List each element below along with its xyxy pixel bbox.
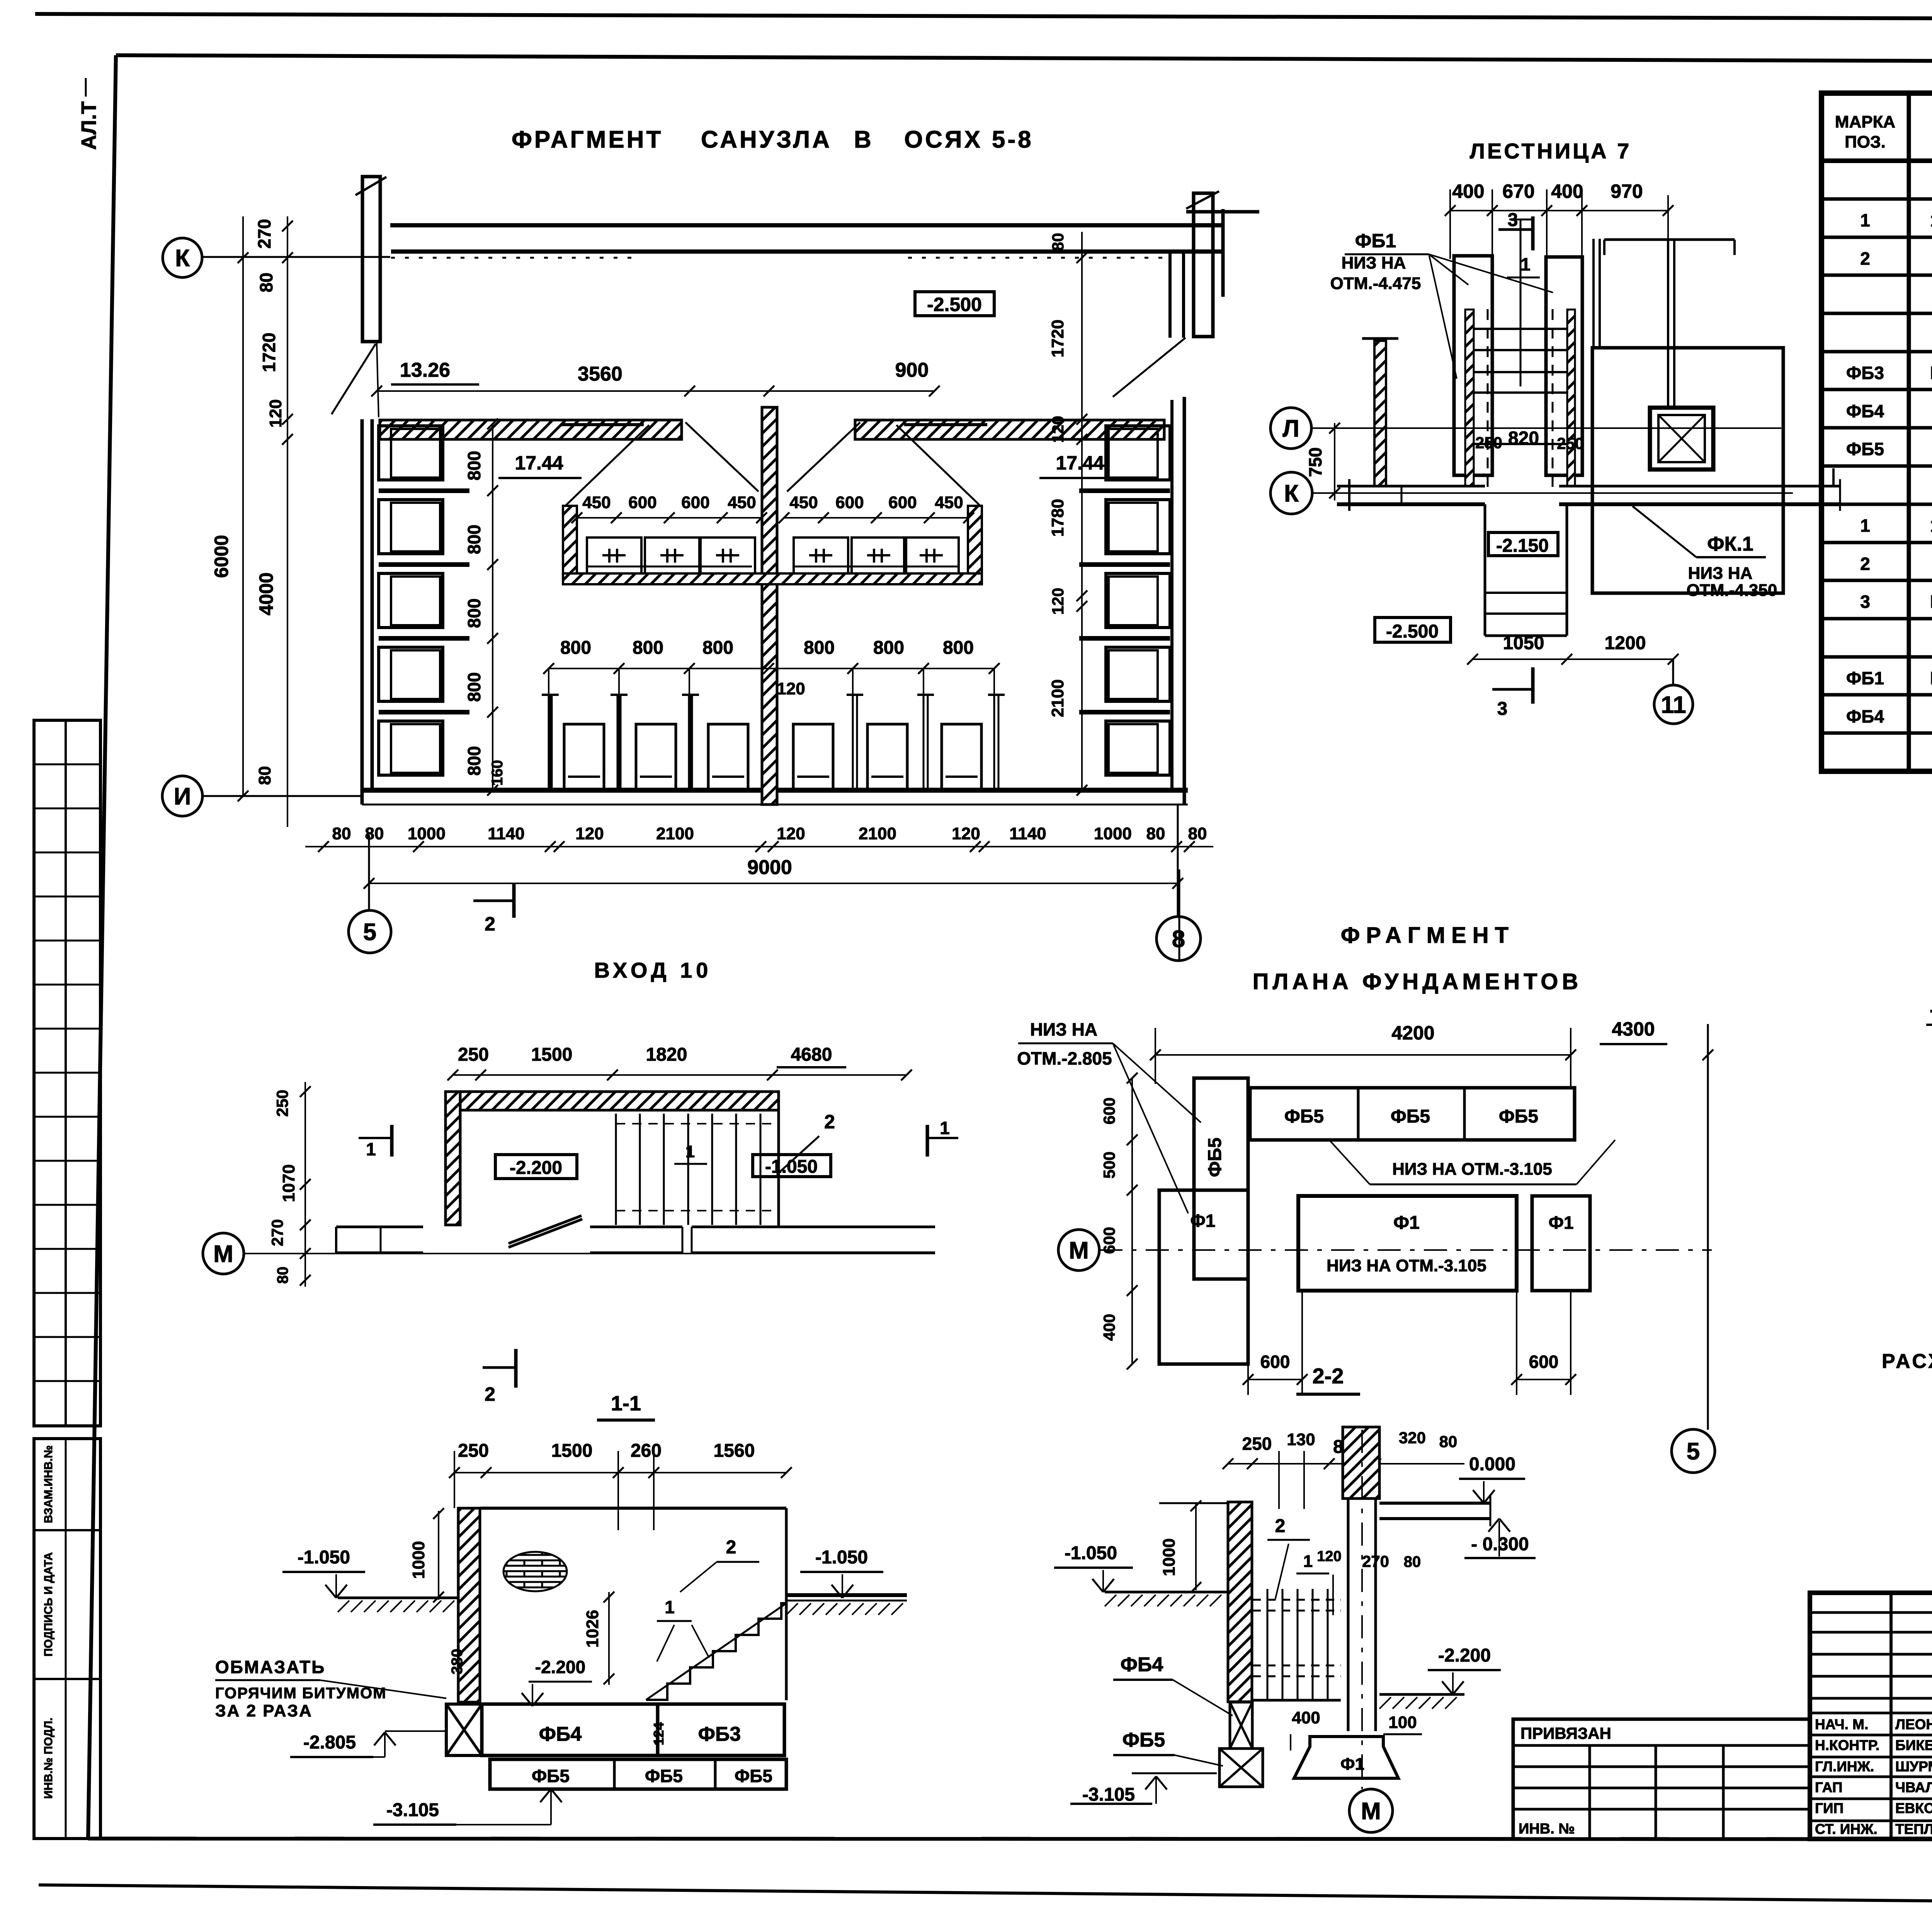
- sink room bottom wall hatched: [563, 573, 982, 584]
- svg-text:250: 250: [273, 1090, 291, 1117]
- svg-text:4680: 4680: [791, 1044, 832, 1065]
- svg-text:130: 130: [1287, 1430, 1315, 1449]
- svg-text:НИЗ НА: НИЗ НА: [1342, 253, 1406, 272]
- wall pillar top-left: [362, 177, 380, 342]
- funnel diagonals right doorway: [787, 422, 860, 492]
- svg-text:320: 320: [1399, 1429, 1426, 1447]
- svg-text:250: 250: [1475, 434, 1502, 452]
- stall partitions right thin double: [852, 695, 854, 790]
- dim line 3560 900: [377, 390, 934, 392]
- svg-text:600: 600: [835, 493, 864, 512]
- svg-text:750: 750: [1305, 447, 1325, 477]
- svg-text:1820: 1820: [646, 1044, 687, 1065]
- svg-text:ГОСТ 13579-78: ГОСТ 13579-78: [1930, 668, 1932, 688]
- door lintel dashed over corridor opening: [391, 257, 641, 259]
- svg-text:ГОРЯЧИМ БИТУМОМ: ГОРЯЧИМ БИТУМОМ: [215, 1685, 387, 1702]
- svg-text:120: 120: [575, 824, 604, 843]
- axis L line: [1311, 427, 1781, 429]
- svg-text:ФБ5: ФБ5: [1846, 439, 1884, 459]
- svg-text:ФРАГМЕНТ: ФРАГМЕНТ: [1341, 923, 1515, 948]
- vhod stairs dashed rails: [616, 1123, 779, 1124]
- room right wall: [1170, 400, 1173, 790]
- svg-text:450: 450: [935, 493, 963, 512]
- svg-text:ВЗАМ.ИНВ.№: ВЗАМ.ИНВ.№: [42, 1445, 55, 1523]
- stair stringer hatched left: [1465, 310, 1474, 486]
- svg-text:ФК.1: ФК.1: [1707, 533, 1753, 555]
- axis mark М: [203, 1233, 244, 1274]
- svg-text:ФБ5: ФБ5: [735, 1766, 772, 1786]
- drawing frame top line: [116, 55, 1932, 63]
- svg-text:400: 400: [1292, 1708, 1320, 1727]
- svg-text:120: 120: [777, 824, 805, 843]
- axis mark 5: [349, 910, 391, 953]
- ground line right 1-1: [786, 1593, 907, 1597]
- svg-text:600: 600: [1100, 1097, 1118, 1124]
- right wall stub above: [1168, 252, 1172, 338]
- svg-text:800: 800: [464, 451, 484, 481]
- svg-text:АЛ.Т: АЛ.Т: [77, 101, 100, 150]
- lestnica dim extension lines: [1449, 189, 1451, 259]
- corridor wall top lines: [390, 223, 1223, 228]
- svg-text:800: 800: [464, 672, 484, 702]
- svg-text:ПОДПИСЬ И ДАТА: ПОДПИСЬ И ДАТА: [42, 1552, 55, 1657]
- svg-text:800: 800: [702, 638, 733, 658]
- svg-text:5: 5: [363, 919, 376, 946]
- svg-text:-2.150: -2.150: [1496, 536, 1549, 556]
- wall pillar top-right: [1194, 193, 1213, 337]
- svg-text:3: 3: [1860, 592, 1870, 612]
- svg-text:80: 80: [1049, 233, 1067, 251]
- svg-text:1: 1: [1860, 210, 1870, 230]
- svg-text:80: 80: [365, 824, 384, 843]
- dim 4200 and 4300: [1155, 1054, 1571, 1056]
- svg-text:Ф1: Ф1: [1393, 1213, 1420, 1233]
- 2-2 right floor slab: [1379, 1502, 1490, 1505]
- svg-text:ОБМАЗАТЬ: ОБМАЗАТЬ: [215, 1657, 325, 1677]
- svg-text:ЧВАЛУН: ЧВАЛУН: [1895, 1779, 1932, 1795]
- svg-text:-1.050: -1.050: [1065, 1543, 1117, 1563]
- svg-text:ЛЕСТНИЦА 7: ЛЕСТНИЦА 7: [1470, 139, 1632, 163]
- svg-text:1140: 1140: [488, 824, 524, 843]
- svg-text:600: 600: [1260, 1352, 1290, 1372]
- svg-text:ФБ4: ФБ4: [1846, 401, 1884, 421]
- svg-text:3560: 3560: [578, 363, 622, 385]
- svg-text:ФБ5: ФБ5: [1391, 1106, 1430, 1127]
- svg-text:800: 800: [633, 638, 663, 658]
- svg-text:1: 1: [685, 1142, 695, 1161]
- svg-text:БИКБАЕВА: БИКБАЕВА: [1895, 1737, 1932, 1753]
- stair dashed rails: [1487, 309, 1489, 487]
- sinks left group: [587, 538, 641, 573]
- svg-text:250: 250: [458, 1044, 489, 1065]
- drawing frame left line: [88, 55, 116, 1839]
- vhod left hatched wall stub: [446, 1092, 460, 1225]
- svg-text:1: 1: [665, 1597, 675, 1617]
- vertical FB5 block: [1194, 1078, 1248, 1279]
- axis 5 line down to circle: [1707, 1024, 1709, 1430]
- svg-text:ФБ4: ФБ4: [1121, 1653, 1163, 1676]
- svg-text:-2.200: -2.200: [1438, 1645, 1491, 1666]
- svg-text:80: 80: [256, 272, 276, 292]
- svg-text:9000: 9000: [747, 856, 792, 879]
- right F1 block: [1532, 1196, 1590, 1291]
- left retaining wall hatched: [1374, 341, 1386, 486]
- svg-text:4300: 4300: [1612, 1018, 1655, 1040]
- axis mark М: [1349, 1789, 1393, 1832]
- axis mark И: [162, 776, 202, 816]
- svg-text:-3.105: -3.105: [1082, 1784, 1135, 1805]
- svg-text:80: 80: [1439, 1432, 1458, 1451]
- svg-text:1070: 1070: [279, 1164, 298, 1202]
- right funnel diagonal to corridor: [1113, 338, 1185, 397]
- axis mark Л: [1270, 408, 1311, 449]
- left stamp column lower table: [34, 1439, 100, 1839]
- svg-text:2100: 2100: [859, 824, 896, 843]
- svg-text:ОТМ.-2.805: ОТМ.-2.805: [1017, 1048, 1112, 1068]
- sinks right group: [794, 538, 848, 573]
- svg-text:ФБ4: ФБ4: [539, 1723, 582, 1745]
- axis 8 extension and mark: [1177, 805, 1179, 917]
- svg-text:ФБ5: ФБ5: [532, 1766, 570, 1786]
- svg-text:ГИП: ГИП: [1815, 1800, 1844, 1816]
- axis mark К: [163, 238, 202, 277]
- axis K line (lestnica): [1312, 492, 1793, 494]
- vhod left rotated dims: [304, 1082, 306, 1287]
- top wall hatched strip A: [380, 420, 682, 439]
- stair pit below slab: [1484, 504, 1486, 636]
- svg-text:400: 400: [1551, 180, 1583, 202]
- svg-text:-1.050: -1.050: [765, 1157, 818, 1177]
- svg-text:НИЗ НА: НИЗ НА: [1688, 564, 1753, 583]
- svg-text:ФБ4: ФБ4: [1846, 706, 1884, 726]
- svg-text:ОТМ.-4.475: ОТМ.-4.475: [1330, 274, 1421, 293]
- axis mark 5: [1672, 1429, 1715, 1473]
- svg-text:1: 1: [1860, 515, 1870, 536]
- svg-text:НИЗ НА: НИЗ НА: [1030, 1019, 1097, 1039]
- 1-1 dim row 250 1500 260 1560: [454, 1472, 786, 1473]
- 2-2 right wall upper hatched: [1343, 1427, 1379, 1499]
- bottom 600 dims: [1248, 1379, 1302, 1380]
- svg-text:5: 5: [1687, 1438, 1700, 1465]
- wall face line under 17.44 left: [561, 423, 644, 426]
- vhod top hatched wall: [446, 1092, 779, 1110]
- title block main frame: [1810, 1593, 1932, 1839]
- stair direction arrow line: [1520, 219, 1522, 386]
- svg-text:ГОСТ 13579-78: ГОСТ 13579-78: [1930, 363, 1932, 383]
- lestnica bottom dim 1050 1200: [1473, 658, 1673, 660]
- 2-2 right wall lower: [1347, 1499, 1350, 1731]
- level box -2.500: [915, 292, 994, 316]
- level box -2.200: [495, 1155, 577, 1179]
- svg-text:САНУЗЛА: САНУЗЛА: [701, 126, 832, 153]
- svg-text:ФБ1: ФБ1: [1355, 230, 1396, 252]
- svg-text:-3.000: -3.000: [1930, 999, 1932, 1021]
- svg-text:2: 2: [726, 1537, 736, 1558]
- svg-text:-2.200: -2.200: [510, 1158, 562, 1178]
- svg-text:80: 80: [1404, 1553, 1421, 1570]
- svg-text:ШУРМУХИНА: ШУРМУХИНА: [1895, 1759, 1932, 1774]
- svg-text:160: 160: [489, 760, 506, 786]
- vhod floor slabs right: [590, 1226, 682, 1228]
- svg-text:ФБ5: ФБ5: [645, 1766, 683, 1786]
- svg-text:450: 450: [582, 493, 611, 512]
- svg-text:1: 1: [1520, 254, 1531, 274]
- svg-text:ФБ5: ФБ5: [1122, 1729, 1165, 1751]
- svg-text:1: 1: [940, 1118, 950, 1138]
- axis M line 2-2: [1361, 1430, 1363, 1789]
- 2-2 left hatched wall: [1228, 1502, 1252, 1702]
- 1-1 foundation FB3: [658, 1704, 784, 1755]
- svg-text:11: 11: [1661, 692, 1686, 718]
- svg-text:1140: 1140: [1009, 824, 1046, 843]
- center F1 block: [1298, 1196, 1517, 1291]
- svg-text:600: 600: [628, 493, 656, 512]
- svg-text:В: В: [854, 126, 874, 153]
- svg-text:17.44: 17.44: [1056, 452, 1104, 474]
- svg-text:М: М: [1069, 1237, 1089, 1264]
- svg-text:1: 1: [1303, 1552, 1313, 1571]
- svg-text:1: 1: [366, 1139, 376, 1159]
- axis M line vhod: [243, 1253, 935, 1254]
- svg-text:2: 2: [1860, 554, 1870, 574]
- privyazan extension table: [1513, 1719, 1810, 1839]
- right interior dim line: [1081, 232, 1083, 790]
- svg-text:600: 600: [888, 493, 917, 512]
- 1-1 foundation X box: [446, 1704, 482, 1755]
- wall face line under 17.44 right: [904, 423, 987, 426]
- level box -2.150: [1488, 532, 1558, 556]
- svg-text:600: 600: [681, 493, 709, 512]
- floor slab strip right at axis K: [1559, 485, 1839, 488]
- section flag 3 top: [1498, 228, 1533, 231]
- svg-text:800: 800: [464, 525, 484, 555]
- fundament left rotated dims: [1131, 1078, 1133, 1364]
- svg-text:100: 100: [1388, 1713, 1417, 1732]
- svg-text:600: 600: [1100, 1227, 1118, 1254]
- top cap line over risers: [1604, 238, 1735, 241]
- svg-text:М: М: [213, 1241, 233, 1267]
- svg-text:1.055.1-1: 1.055.1-1: [1930, 515, 1932, 536]
- svg-text:НАЧ. М.: НАЧ. М.: [1815, 1716, 1868, 1732]
- svg-text:400: 400: [1100, 1314, 1118, 1341]
- right landing pit rectangle: [1592, 348, 1783, 593]
- svg-text:ЕВКО: ЕВКО: [1895, 1800, 1932, 1816]
- svg-text:120: 120: [266, 399, 285, 427]
- 1-1 foundation FB4: [482, 1704, 658, 1755]
- svg-text:1720: 1720: [1048, 320, 1067, 357]
- svg-text:ПЛАНА ФУНДАМЕНТОВ: ПЛАНА ФУНДАМЕНТОВ: [1253, 969, 1582, 994]
- svg-text:1560: 1560: [714, 1441, 755, 1461]
- svg-text:1720: 1720: [259, 333, 279, 372]
- svg-text:1000: 1000: [408, 824, 446, 843]
- svg-text:-2.200: -2.200: [535, 1657, 585, 1677]
- left interior dim line 800 x5: [492, 424, 493, 790]
- svg-text:Л: Л: [1282, 415, 1299, 442]
- section flag 2 top: [473, 900, 514, 902]
- svg-text:1500: 1500: [531, 1044, 573, 1065]
- axis mark 11: [1654, 685, 1693, 724]
- svg-text:4200: 4200: [1391, 1022, 1434, 1044]
- svg-text:1026: 1026: [583, 1610, 602, 1648]
- riser lines above pit: [1592, 239, 1595, 348]
- 1-1 stairs steps: [646, 1603, 786, 1700]
- svg-text:2-2: 2-2: [1313, 1364, 1344, 1388]
- stall dim line 800 x6: [549, 668, 994, 669]
- svg-text:ТЕПЛОВА: ТЕПЛОВА: [1895, 1821, 1932, 1837]
- 1-1 brick ellipse: [503, 1552, 567, 1591]
- vhod floor slabs left: [336, 1226, 423, 1228]
- svg-text:80: 80: [1146, 824, 1165, 843]
- level box -1.050: [753, 1155, 831, 1177]
- left outer dim lines: [242, 216, 244, 796]
- svg-text:СТ. ИНЖ.: СТ. ИНЖ.: [1815, 1821, 1878, 1837]
- left lower F1 block: [1159, 1190, 1248, 1364]
- svg-text:260: 260: [631, 1441, 662, 1461]
- svg-text:6000: 6000: [211, 535, 232, 578]
- svg-text:1500: 1500: [551, 1441, 593, 1461]
- svg-text:1000: 1000: [1094, 824, 1132, 843]
- svg-text:ЗА 2 РАЗА: ЗА 2 РАЗА: [215, 1701, 313, 1720]
- room left wall: [361, 419, 364, 805]
- svg-text:МАРКА: МАРКА: [1835, 112, 1895, 131]
- svg-text:2: 2: [1860, 248, 1870, 269]
- axis I line: [202, 795, 363, 797]
- svg-text:0.000: 0.000: [1469, 1454, 1515, 1475]
- svg-text:ГАП: ГАП: [1815, 1779, 1842, 1795]
- svg-text:250: 250: [1242, 1434, 1272, 1454]
- svg-text:250: 250: [458, 1441, 489, 1461]
- svg-text:К: К: [1284, 480, 1299, 507]
- toilets: [564, 724, 604, 790]
- corridor wall end cap: [1221, 209, 1225, 297]
- svg-text:ОСЯХ: ОСЯХ: [904, 126, 983, 153]
- bottom small dim row: [305, 846, 1213, 847]
- svg-text:17.44: 17.44: [515, 452, 563, 474]
- ground right 2-2: [1379, 1693, 1464, 1696]
- svg-text:1050: 1050: [1503, 633, 1544, 653]
- specification table grid: [1821, 93, 1932, 771]
- 1-1 foundation FB5 row: [490, 1759, 786, 1789]
- vhod stairs risers: [615, 1114, 617, 1225]
- svg-text:ФБ1: ФБ1: [1846, 668, 1884, 688]
- axis 8 line down to foundation plan: [1179, 869, 1180, 961]
- svg-text:1-1: 1-1: [611, 1392, 641, 1415]
- svg-text:ФБ3: ФБ3: [698, 1723, 741, 1745]
- 2-2 X blocks under wall: [1230, 1702, 1252, 1749]
- svg-text:ГЛ.ИНЖ.: ГЛ.ИНЖ.: [1815, 1759, 1874, 1774]
- sheet top scan edge line: [35, 14, 1932, 20]
- 1-1 top slab line: [480, 1507, 786, 1510]
- leader lines to columns: [1429, 254, 1468, 285]
- section flag 2 bottom: [483, 1366, 516, 1369]
- lestnica dim row 400 670 400 970: [1450, 210, 1668, 211]
- svg-text:120: 120: [1049, 588, 1067, 615]
- door diagonal at left entry: [332, 344, 376, 414]
- svg-text:ИНВ. №: ИНВ. №: [1519, 1821, 1575, 1837]
- svg-text:Ф1: Ф1: [1549, 1213, 1574, 1233]
- svg-text:ФБ5: ФБ5: [1205, 1138, 1225, 1177]
- svg-text:5-8: 5-8: [992, 126, 1034, 153]
- left stamp column upper table: [34, 720, 100, 1426]
- svg-text:800: 800: [873, 638, 904, 658]
- column FK-1 square with X: [1650, 408, 1713, 469]
- axis 5 extension and mark: [368, 835, 370, 910]
- svg-text:250: 250: [1557, 434, 1584, 452]
- section flag 3 bottom: [1492, 688, 1533, 691]
- stair steps: [1474, 328, 1567, 330]
- svg-text:1780: 1780: [1048, 499, 1067, 537]
- right wall toilet fixtures: [1106, 426, 1170, 480]
- svg-text:Н.КОНТР.: Н.КОНТР.: [1815, 1737, 1879, 1753]
- svg-text:1000: 1000: [409, 1541, 428, 1579]
- svg-text:Ф1: Ф1: [1190, 1211, 1216, 1231]
- svg-text:1200: 1200: [1605, 633, 1646, 653]
- svg-text:400: 400: [1452, 180, 1484, 202]
- svg-text:-1.050: -1.050: [815, 1547, 868, 1568]
- axis mark 8: [1156, 917, 1201, 961]
- svg-text:2: 2: [485, 1383, 495, 1405]
- svg-text:ПОЗ.: ПОЗ.: [1845, 133, 1886, 151]
- center partition hatched: [762, 407, 777, 805]
- sink room left wall hatched: [563, 506, 577, 584]
- svg-text:1.055.1-1: 1.055.1-1: [1930, 210, 1932, 230]
- svg-text:ЛЕОНОВ: ЛЕОНОВ: [1895, 1716, 1932, 1732]
- svg-text:ФРАГМЕНТ: ФРАГМЕНТ: [512, 126, 663, 153]
- svg-text:ГОСТ 8478-81: ГОСТ 8478-81: [1930, 592, 1932, 612]
- stair column FB1 right: [1546, 257, 1582, 475]
- svg-text:80: 80: [332, 824, 351, 843]
- sink room right wall hatched: [968, 506, 982, 584]
- svg-text:НИЗ НА ОТМ.-3.105: НИЗ НА ОТМ.-3.105: [1327, 1256, 1486, 1275]
- svg-text:800: 800: [943, 638, 974, 658]
- svg-text:900: 900: [895, 359, 929, 381]
- bottom 9000 dim row: [369, 883, 1178, 884]
- svg-text:500: 500: [1100, 1152, 1118, 1179]
- level box -2.500 lestnica: [1375, 617, 1451, 642]
- svg-text:К: К: [175, 245, 190, 272]
- stair stringer hatched right: [1567, 310, 1575, 486]
- sink dim line 450-600-600-450: [577, 517, 762, 519]
- svg-text:ОТМ.-4.350: ОТМ.-4.350: [1687, 581, 1777, 600]
- svg-text:-2.500: -2.500: [927, 294, 982, 315]
- stair column FB1 left: [1454, 256, 1492, 475]
- funnel diagonals left doorway: [685, 422, 759, 492]
- svg-text:2100: 2100: [1048, 679, 1067, 717]
- svg-text:800: 800: [560, 638, 591, 658]
- drawing frame bottom line: [88, 1839, 1932, 1839]
- top wall hatched strip B: [855, 420, 1164, 439]
- svg-text:970: 970: [1611, 180, 1643, 202]
- 2-2 F1 footing: [1294, 1737, 1398, 1778]
- level -0.300 2-2: [1488, 1519, 1499, 1532]
- ground line left 1-1: [338, 1597, 458, 1599]
- svg-text:80: 80: [255, 766, 274, 785]
- svg-text:ФБ3: ФБ3: [1846, 363, 1884, 383]
- svg-text:1000: 1000: [1160, 1538, 1179, 1576]
- svg-text:80: 80: [274, 1267, 291, 1284]
- svg-text:820: 820: [1508, 428, 1539, 449]
- ground line left 2-2: [1105, 1591, 1228, 1594]
- svg-text:НИЗ НА ОТМ.-3.105: НИЗ НА ОТМ.-3.105: [1392, 1160, 1552, 1179]
- axis K line: [202, 256, 390, 258]
- axis mark К: [1270, 472, 1312, 514]
- svg-text:800: 800: [464, 599, 484, 628]
- svg-text:3: 3: [1497, 699, 1508, 719]
- axis M line fundament: [1099, 1249, 1712, 1251]
- svg-text:М: М: [1361, 1798, 1381, 1825]
- svg-text:380: 380: [449, 1649, 466, 1675]
- svg-text:450: 450: [728, 493, 756, 512]
